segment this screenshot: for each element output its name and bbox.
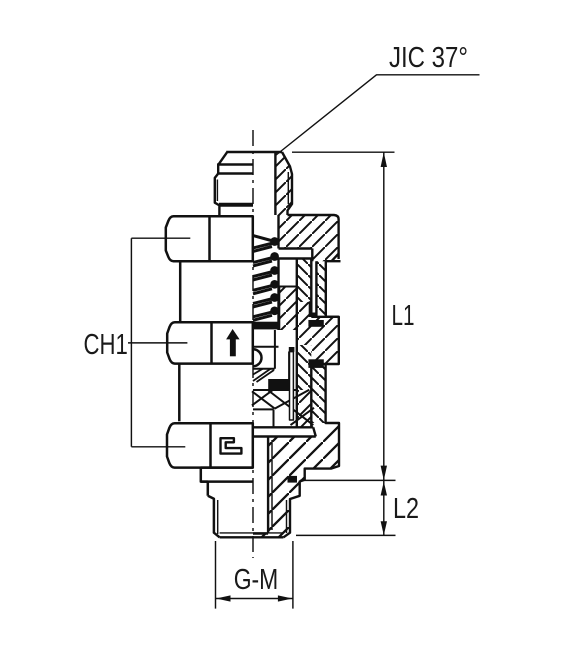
L2 dimension line xyxy=(383,480,385,535)
L1 dimension line xyxy=(383,152,385,480)
logo mark xyxy=(221,438,242,453)
hex2 body hex xyxy=(167,322,253,363)
cross channel upper xyxy=(279,249,313,262)
bottom bore walls xyxy=(253,437,268,534)
left exterior: nose xyxy=(215,151,253,215)
spring xyxy=(253,236,275,321)
port thread root right xyxy=(286,500,288,533)
G-M arrows xyxy=(216,595,231,601)
port seal xyxy=(288,476,298,483)
svg-text:CH1: CH1 xyxy=(84,329,128,361)
spring cage edges xyxy=(279,287,297,331)
hex3 locknut2 xyxy=(167,423,253,467)
nose outline right xyxy=(282,152,292,215)
section hatch: nose wall xyxy=(275,152,291,215)
bottom bore thread line xyxy=(271,440,273,530)
L2 extension bottom xyxy=(296,534,396,536)
svg-text:G-M: G-M xyxy=(234,564,279,596)
section hatch: spring cage block xyxy=(279,287,297,331)
section hatch: inner tube chevron xyxy=(297,259,312,303)
poppet skirt hatch lines xyxy=(253,369,274,382)
washer left xyxy=(201,468,253,482)
cross channel lower xyxy=(253,427,316,436)
G-M extension lines xyxy=(216,541,293,609)
poppet top seal bar xyxy=(253,322,279,330)
centerline xyxy=(252,130,254,558)
inner tube edges xyxy=(297,259,317,428)
step left xyxy=(201,482,208,496)
section hatch: outer sleeve xyxy=(316,261,325,317)
stem guide cap xyxy=(289,347,295,352)
shank1 xyxy=(179,261,182,322)
L1 extension bottom xyxy=(300,479,396,481)
JIC leader xyxy=(276,75,480,156)
bottom face xyxy=(220,536,284,538)
seal lower right xyxy=(308,359,323,368)
nose thread root line right xyxy=(287,172,289,204)
nose thread root left xyxy=(216,180,218,202)
section hatch: hex flange xyxy=(279,215,339,261)
poppet ball xyxy=(253,349,262,366)
shank2 xyxy=(178,364,181,422)
section hatch: valve seat xyxy=(252,390,314,425)
poppet seat seal xyxy=(268,379,289,390)
L2 arrows xyxy=(381,482,387,496)
port thread left xyxy=(208,496,220,538)
L1 arrows xyxy=(381,152,387,167)
retaining ring L xyxy=(309,301,317,317)
svg-text:JIC 37°: JIC 37° xyxy=(389,42,468,74)
section hatch: bottom nut and port xyxy=(253,423,339,537)
svg-text:L2: L2 xyxy=(393,493,419,525)
section hatch: hex2 section xyxy=(311,317,339,364)
seat edges xyxy=(253,369,297,428)
poppet flange line xyxy=(253,346,279,348)
hex1 locknut xyxy=(166,216,253,261)
stem guide xyxy=(290,352,294,420)
hex2 section edges xyxy=(311,317,339,364)
section hatch: sleeve below hex2 xyxy=(311,364,325,423)
G-M dimension line xyxy=(216,598,293,600)
spring chamber wall xyxy=(277,215,279,330)
bottom chamfer circle line xyxy=(220,532,284,534)
CH1 bracket xyxy=(128,238,190,447)
flow arrow xyxy=(226,329,240,356)
L1 extension top xyxy=(292,151,395,153)
seal upper right xyxy=(308,320,323,327)
poppet piston walls xyxy=(275,330,289,379)
svg-text:L1: L1 xyxy=(392,300,415,332)
bore wall top xyxy=(274,152,276,215)
port thread root left xyxy=(217,500,219,534)
top face line xyxy=(228,151,282,153)
body section outline right xyxy=(284,215,341,537)
